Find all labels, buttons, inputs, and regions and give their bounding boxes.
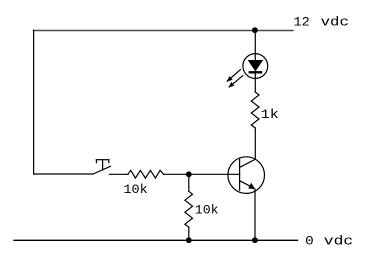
label: 0 vdc xyxy=(305,234,353,248)
wire: switch to resistor xyxy=(110,173,128,175)
wire: resistor to transistor base xyxy=(164,173,240,175)
resistor 1k vertical (zigzag) xyxy=(251,92,259,128)
wire: base node down to lower 10k xyxy=(188,174,190,191)
svg-text:12: 12 xyxy=(294,15,310,29)
svg-text:vdc: vdc xyxy=(321,15,349,29)
svg-text:vdc: vdc xyxy=(324,234,353,248)
switch T (pushbutton actuator) xyxy=(93,160,111,174)
svg-text:10k: 10k xyxy=(195,204,219,218)
node: 10k-ground junction xyxy=(186,237,192,243)
LED D1 circle xyxy=(243,54,268,79)
transistor Q1 base bar xyxy=(239,159,241,190)
transistor Q1 emitter slant xyxy=(240,181,253,188)
resistor 10k vertical (zigzag) xyxy=(185,191,193,227)
LED D1 cathode bar xyxy=(249,71,263,73)
wire: LED to 1k resistor xyxy=(254,74,256,93)
label: 12 vdc xyxy=(294,15,349,29)
LED D1 triangle (anode) xyxy=(249,61,263,71)
LED D1 emission arrow 1 xyxy=(227,69,241,82)
svg-text:1k: 1k xyxy=(261,108,279,122)
LED D1 emission arrow 2 xyxy=(228,75,243,87)
transistor Q1 emitter arrowhead xyxy=(248,183,255,190)
wire: 1k to transistor collector xyxy=(254,128,256,159)
wire: lower 10k to ground rail xyxy=(188,227,190,240)
node: emitter-ground junction xyxy=(252,237,258,243)
wire: 0 vdc bottom rail xyxy=(14,239,298,241)
wire: switch row left segment xyxy=(34,173,93,175)
wire: top rail to LED xyxy=(254,30,256,60)
wire: emitter to ground rail xyxy=(254,189,256,240)
wire: 12 vdc top rail xyxy=(34,29,293,31)
transistor Q1 collector slant xyxy=(240,159,256,167)
node: base junction xyxy=(186,171,192,177)
svg-text:10k: 10k xyxy=(124,183,148,197)
node: rail-LED junction xyxy=(252,27,258,33)
wire: left vertical from top rail to switch xyxy=(33,30,35,174)
svg-text:0: 0 xyxy=(305,234,314,248)
transistor Q1 circle xyxy=(228,157,265,194)
resistor 10k horizontal (zigzag) xyxy=(128,170,164,178)
